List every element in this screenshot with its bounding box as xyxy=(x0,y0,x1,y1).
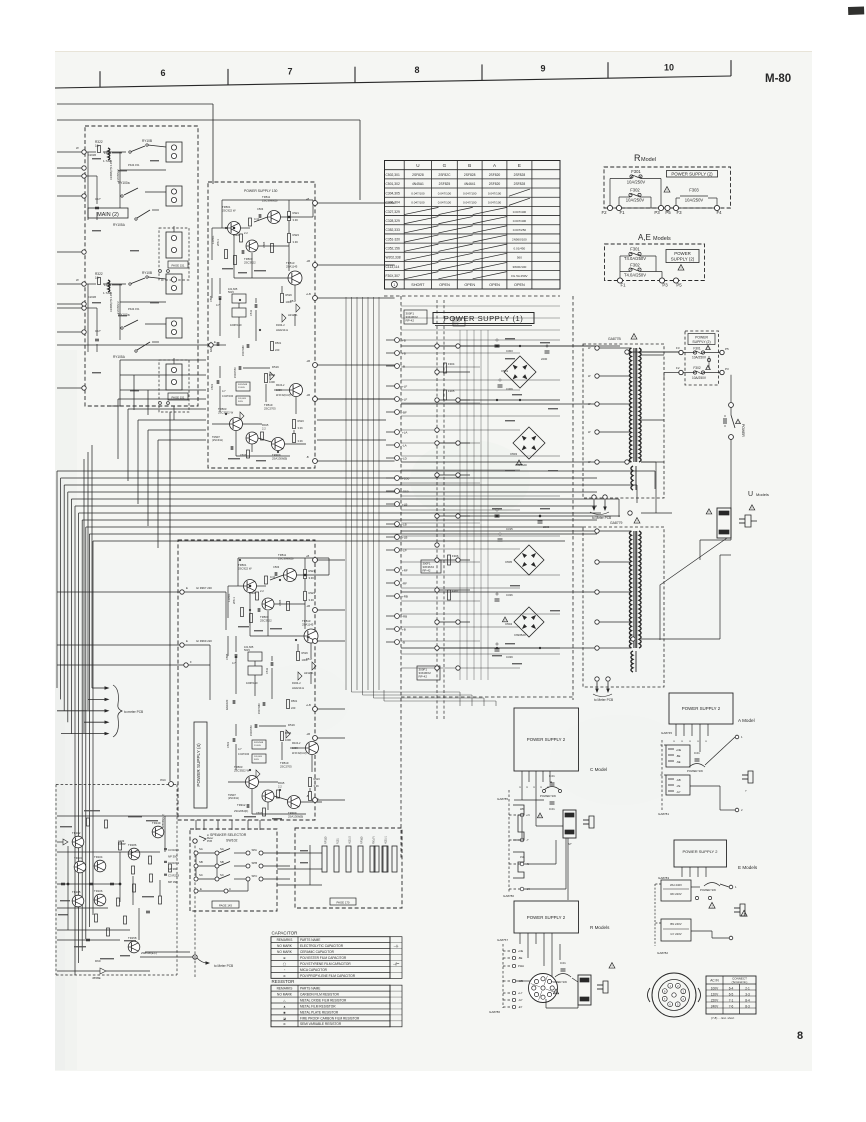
svg-text:W: W xyxy=(76,278,79,282)
svg-text:5015: 5015 xyxy=(254,759,260,761)
svg-text:0.01: 0.01 xyxy=(560,961,566,965)
svg-text:!: ! xyxy=(666,189,667,193)
svg-text:3.3K: 3.3K xyxy=(309,598,315,602)
svg-text:D519: D519 xyxy=(272,365,279,369)
svg-text:0.047/160: 0.047/160 xyxy=(238,753,250,756)
svg-text:C: C xyxy=(518,786,522,788)
svg-text:+LF: +LF xyxy=(402,385,407,389)
svg-text:2SC2064(K): 2SC2064(K) xyxy=(234,809,248,813)
svg-text:Models: Models xyxy=(756,492,769,497)
svg-text:NO MARK: NO MARK xyxy=(277,944,293,948)
svg-text:5015/508: 5015/508 xyxy=(254,742,264,744)
svg-text:SPA: SPA xyxy=(252,848,258,852)
svg-text:RY1(F): RY1(F) xyxy=(373,836,376,844)
svg-text:HZ12B1: HZ12B1 xyxy=(304,671,314,675)
svg-text:0.047/100: 0.047/100 xyxy=(463,191,477,195)
svg-text:SPC: SPC xyxy=(252,874,258,878)
svg-text:GA8781: GA8781 xyxy=(658,812,669,816)
svg-text:SPEAKER SELECTOR: SPEAKER SELECTOR xyxy=(210,833,247,837)
svg-text:C328,329: C328,329 xyxy=(386,219,400,223)
svg-text:C501: C501 xyxy=(226,741,230,748)
svg-text:3.3K: 3.3K xyxy=(298,426,304,430)
svg-text:2.2: 2.2 xyxy=(260,589,264,593)
svg-text:0.047/100: 0.047/100 xyxy=(438,191,452,195)
svg-text:OPEN: OPEN xyxy=(514,283,525,287)
svg-text:PAGE 170: PAGE 170 xyxy=(336,900,349,904)
svg-text:C565: C565 xyxy=(209,295,213,302)
svg-text:F305: F305 xyxy=(448,389,455,393)
svg-text:SUPPLY (2): SUPPLY (2) xyxy=(671,257,695,262)
svg-text:10: 10 xyxy=(95,144,99,148)
svg-text:-D50: -D50 xyxy=(402,490,409,494)
svg-text:6: 6 xyxy=(160,68,165,78)
svg-text:POWER SUPPLY 2: POWER SUPPLY 2 xyxy=(682,706,721,711)
svg-text:F1: F1 xyxy=(619,210,625,215)
svg-text:TR158: TR158 xyxy=(128,936,137,940)
svg-text:OPEN: OPEN xyxy=(439,283,450,287)
svg-text:C503: C503 xyxy=(256,812,263,815)
svg-text:+NE: +NE xyxy=(518,949,523,953)
svg-text:8-4: 8-4 xyxy=(745,998,750,1002)
svg-text:-RB: -RB xyxy=(402,615,407,619)
svg-text:S?: S? xyxy=(568,842,572,846)
svg-text:C: C xyxy=(525,786,529,788)
svg-text:C: C xyxy=(532,786,536,788)
svg-text:+B: +B xyxy=(306,554,310,558)
svg-text:RP-42: RP-42 xyxy=(419,675,428,679)
svg-text:+LB: +LB xyxy=(306,703,311,707)
svg-text:R923: R923 xyxy=(298,419,305,423)
svg-text:◔: ◔ xyxy=(284,968,286,972)
svg-text:1500P/50: 1500P/50 xyxy=(234,367,237,378)
svg-text:C329: C329 xyxy=(506,655,513,659)
svg-text:!: ! xyxy=(752,506,753,510)
svg-text:-NE: -NE xyxy=(676,760,681,764)
svg-text:2SF828: 2SF828 xyxy=(412,173,424,177)
svg-text:W: W xyxy=(76,146,79,150)
svg-text:+N: +N xyxy=(526,813,530,817)
svg-text:C501: C501 xyxy=(210,383,214,390)
svg-text:PAGE 143: PAGE 143 xyxy=(219,903,232,907)
svg-text:RP-42: RP-42 xyxy=(423,568,431,572)
svg-text:2SF820: 2SF820 xyxy=(489,173,501,177)
svg-text:GI R967 230: GI R967 230 xyxy=(196,586,212,590)
svg-text:-GB: -GB xyxy=(676,778,681,782)
svg-text:10: 10 xyxy=(664,63,674,73)
svg-text:to meter PCB: to meter PCB xyxy=(124,710,143,714)
svg-text:SB: SB xyxy=(199,860,203,864)
svg-text:F301: F301 xyxy=(631,169,641,174)
svg-text:-LD: -LD xyxy=(402,457,408,461)
svg-text:2P6.1: 2P6.1 xyxy=(232,597,236,604)
svg-text:◯: ◯ xyxy=(283,962,287,966)
svg-text:E Models: E Models xyxy=(738,865,758,870)
svg-text:RP150: RP150 xyxy=(325,836,328,844)
svg-text:C503: C503 xyxy=(273,565,280,569)
svg-text:2SA1145: 2SA1145 xyxy=(302,622,314,626)
svg-text:◪: ◪ xyxy=(283,1016,286,1020)
svg-text:C: C xyxy=(681,740,684,742)
svg-text:F306: F306 xyxy=(452,554,459,558)
svg-text:POWER SW: POWER SW xyxy=(700,888,716,892)
svg-text:PAGE 151: PAGE 151 xyxy=(171,263,184,267)
svg-text:F4: F4 xyxy=(716,210,722,215)
svg-text:E: E xyxy=(200,887,202,891)
svg-text:FR24-2: FR24-2 xyxy=(292,742,301,745)
svg-text:◉: ◉ xyxy=(283,1010,286,1014)
svg-text:3.3K: 3.3K xyxy=(314,784,320,788)
svg-text:METAL FILM RESISTOR: METAL FILM RESISTOR xyxy=(300,1004,336,1008)
svg-text:100K: 100K xyxy=(269,380,275,384)
svg-text:C1?: C1? xyxy=(95,329,101,333)
svg-text:F303: F303 xyxy=(689,187,699,192)
svg-text:C3 R222: C3 R222 xyxy=(168,848,179,852)
svg-text:HA0213-H: HA0213-H xyxy=(276,328,288,332)
svg-text:⊘: ⊘ xyxy=(283,974,286,978)
svg-text:⊘: ⊘ xyxy=(283,1022,286,1026)
svg-text:F302: F302 xyxy=(630,187,640,192)
svg-text:SEMI VARIABLE RESISTOR: SEMI VARIABLE RESISTOR xyxy=(300,1022,342,1026)
svg-text:1500P/50: 1500P/50 xyxy=(250,725,253,736)
svg-text:F307: F307 xyxy=(452,589,459,593)
svg-text:SPB: SPB xyxy=(252,861,258,865)
svg-text:13.005: 13.005 xyxy=(254,745,261,747)
svg-text:A Model: A Model xyxy=(738,718,755,723)
svg-text:1: 1 xyxy=(393,283,395,287)
svg-text:NP 390: NP 390 xyxy=(168,854,178,858)
svg-text:2SA1306(B): 2SA1306(B) xyxy=(288,814,303,818)
svg-text:CERAMIC CAPACITOR: CERAMIC CAPACITOR xyxy=(300,950,335,954)
svg-text:MAIN (2): MAIN (2) xyxy=(97,212,119,218)
svg-text:TR102: TR102 xyxy=(72,831,81,835)
svg-text:+B: +B xyxy=(402,339,406,343)
svg-text:SC: SC xyxy=(199,873,203,877)
svg-text:4.7: 4.7 xyxy=(232,661,236,665)
svg-text:P5: P5 xyxy=(676,283,682,288)
svg-text:H151-2: H151-2 xyxy=(349,835,352,844)
svg-text:0.047/400: 0.047/400 xyxy=(513,219,527,223)
svg-text:4558E: 4558E xyxy=(92,976,101,980)
svg-text:2SC2705: 2SC2705 xyxy=(280,764,292,768)
svg-text:GA877B: GA877B xyxy=(608,337,622,341)
svg-text:0.01/450: 0.01/450 xyxy=(514,246,526,250)
svg-text:D504: D504 xyxy=(505,622,512,626)
svg-text:F2: F2 xyxy=(601,210,607,215)
svg-text:T4.0A/250V: T4.0A/250V xyxy=(624,272,646,277)
svg-text:2SA1306(B): 2SA1306(B) xyxy=(272,456,287,460)
svg-text:-GY: -GY xyxy=(676,790,681,794)
svg-text:0.047/100: 0.047/100 xyxy=(411,201,425,205)
svg-text:⊣⊦: ⊣⊦ xyxy=(393,944,398,948)
svg-text:F30X,307: F30X,307 xyxy=(386,274,400,278)
svg-text:C352,156: C352,156 xyxy=(386,246,400,250)
svg-text:FR24-2: FR24-2 xyxy=(276,384,285,387)
svg-text:C: C xyxy=(229,887,231,891)
svg-text:POWER SUPPLY (2): POWER SUPPLY (2) xyxy=(671,172,713,177)
svg-text:D503: D503 xyxy=(510,452,517,456)
svg-text:2SC922 W: 2SC922 W xyxy=(238,566,252,570)
svg-text:POWER SUPPLY 2: POWER SUPPLY 2 xyxy=(527,737,566,742)
svg-text:POWER SUPPLY (4): POWER SUPPLY (4) xyxy=(196,743,201,787)
svg-text:R529: R529 xyxy=(302,651,309,655)
svg-text:+RB: +RB xyxy=(402,595,408,599)
svg-text:Model: Model xyxy=(641,157,656,163)
svg-text:100K: 100K xyxy=(276,389,282,392)
svg-text:to Meter PCB: to Meter PCB xyxy=(214,964,233,968)
svg-text:2200: 2200 xyxy=(543,525,550,529)
svg-text:3.3K: 3.3K xyxy=(298,439,304,443)
svg-text:GA8779: GA8779 xyxy=(610,521,623,525)
svg-text:GA8757: GA8757 xyxy=(497,938,508,942)
svg-text:2.2: 2.2 xyxy=(262,426,266,430)
svg-text:2SC3922: 2SC3922 xyxy=(260,618,272,622)
svg-text:C565: C565 xyxy=(225,653,229,660)
svg-text:PARTS NAME: PARTS NAME xyxy=(300,938,320,942)
svg-text:C136/B(P)9 0.058: C136/B(P)9 0.058 xyxy=(110,291,113,312)
svg-text:0.047/100: 0.047/100 xyxy=(463,201,477,205)
svg-text:P5: P5 xyxy=(665,210,671,215)
svg-text:-RF: -RF xyxy=(402,582,407,586)
svg-text:GI R969 220: GI R969 220 xyxy=(196,639,212,643)
svg-text:F304: F304 xyxy=(448,362,455,366)
svg-text:CONNECT: CONNECT xyxy=(732,977,747,981)
svg-text:0.01: 0.01 xyxy=(549,774,555,778)
svg-text:0.047/100: 0.047/100 xyxy=(411,191,425,195)
svg-text:!: ! xyxy=(738,420,739,424)
svg-text:15A: 15A xyxy=(520,856,525,859)
svg-text:T4.0A/250V: T4.0A/250V xyxy=(624,256,646,261)
svg-text:GA8786: GA8786 xyxy=(489,1010,500,1014)
svg-text:(2SC911): (2SC911) xyxy=(228,796,239,800)
svg-text:C503: C503 xyxy=(257,207,264,211)
svg-text:2SC3998(B): 2SC3998(B) xyxy=(262,198,277,202)
svg-text:C352,333: C352,333 xyxy=(386,228,400,232)
svg-text:4N45A1: 4N45A1 xyxy=(412,182,424,186)
svg-text:10A/250V: 10A/250V xyxy=(692,376,707,380)
svg-text:2SB596(E,F): 2SB596(E,F) xyxy=(141,951,157,955)
svg-text:F3: F3 xyxy=(676,210,682,215)
svg-text:C326: C326 xyxy=(506,593,513,597)
svg-text:TR105: TR105 xyxy=(72,890,81,894)
svg-text:-LB: -LB xyxy=(306,393,310,397)
svg-text:TR106: TR106 xyxy=(94,889,103,893)
svg-text:SA: SA xyxy=(220,847,224,851)
svg-text:+B: +B xyxy=(306,197,310,201)
svg-text:P5: P5 xyxy=(725,347,729,351)
svg-text:C: C xyxy=(689,740,692,742)
svg-text:3.3K: 3.3K xyxy=(293,240,299,244)
svg-text:0.047/100: 0.047/100 xyxy=(488,201,502,205)
svg-text:POWER SW: POWER SW xyxy=(540,794,556,798)
svg-text:-B: -B xyxy=(402,365,405,369)
svg-text:FIRE PROOF CARBON FILM RESISTO: FIRE PROOF CARBON FILM RESISTOR xyxy=(300,1016,360,1020)
svg-text:-BE: -BE xyxy=(518,956,523,960)
svg-text:CARBON FILM RESISTOR: CARBON FILM RESISTOR xyxy=(300,992,340,996)
svg-text:POLYSTYRENE FILM CAPACITOR: POLYSTYRENE FILM CAPACITOR xyxy=(300,962,351,966)
svg-text:to Meter PCB: to Meter PCB xyxy=(594,698,613,702)
svg-text:C502,301: C502,301 xyxy=(386,173,400,177)
svg-text:0.047/250: 0.047/250 xyxy=(513,228,527,232)
svg-text:C306,304: C306,304 xyxy=(386,201,400,205)
svg-text:MICA CAPACITOR: MICA CAPACITOR xyxy=(300,968,328,972)
svg-text:240V: 240V xyxy=(711,1004,719,1008)
svg-text:!: ! xyxy=(540,814,541,818)
svg-text:-LB: -LB xyxy=(306,635,310,639)
svg-text:!: ! xyxy=(519,461,520,465)
svg-text:+RF: +RF xyxy=(402,569,408,573)
svg-text:ELECTROLYTIC CAPACITOR: ELECTROLYTIC CAPACITOR xyxy=(300,944,344,948)
svg-text:SW102: SW102 xyxy=(226,839,238,843)
svg-text:B: B xyxy=(468,163,471,168)
svg-text:R923: R923 xyxy=(314,777,321,781)
svg-text:REMARKS: REMARKS xyxy=(277,938,293,942)
svg-text:-BE: -BE xyxy=(676,754,681,758)
svg-text:RY105A: RY105A xyxy=(113,355,126,359)
svg-text:7-1: 7-1 xyxy=(729,998,734,1002)
svg-text:GA8785: GA8785 xyxy=(497,797,508,801)
svg-text:100V: 100V xyxy=(711,986,719,990)
svg-text:FR24-2: FR24-2 xyxy=(276,323,285,327)
svg-text:2-1: 2-1 xyxy=(745,986,750,990)
svg-text:-LB: -LB xyxy=(306,359,310,363)
svg-text:SC: SC xyxy=(220,873,224,877)
svg-text:REMARKS: REMARKS xyxy=(277,987,293,991)
svg-text:101,665: 101,665 xyxy=(238,398,247,400)
svg-text:3-3: 3-3 xyxy=(745,992,750,996)
svg-text:SHORT: SHORT xyxy=(411,283,425,287)
svg-text:220: 220 xyxy=(275,348,280,352)
svg-text:POWER SUPPLY 130: POWER SUPPLY 130 xyxy=(244,189,278,193)
svg-text:+NE: +NE xyxy=(676,748,681,752)
svg-text:C315: C315 xyxy=(506,527,513,531)
svg-text:+LA: +LA xyxy=(402,431,407,435)
svg-text:7-6: 7-6 xyxy=(729,1004,734,1008)
svg-text:C309: C309 xyxy=(506,387,513,391)
svg-text:WR: WR xyxy=(520,808,524,811)
svg-text:!: ! xyxy=(711,904,712,909)
svg-text:2SF828: 2SF828 xyxy=(514,182,526,186)
svg-text:!: ! xyxy=(556,990,557,994)
svg-text:GA8782: GA8782 xyxy=(657,951,668,955)
svg-text:!: ! xyxy=(611,965,612,969)
svg-text:POWER SW: POWER SW xyxy=(687,769,703,773)
svg-text:+LY: +LY xyxy=(518,991,523,995)
svg-text:+LB: +LB xyxy=(306,292,311,296)
svg-text:FR24-2: FR24-2 xyxy=(292,681,301,685)
svg-text:SB: SB xyxy=(220,860,224,864)
svg-text:+LF: +LF xyxy=(402,398,407,402)
svg-text:(7-8) ... Ext. short: (7-8) ... Ext. short xyxy=(711,1016,734,1020)
svg-text:2SC3922 W: 2SC3922 W xyxy=(234,768,249,772)
svg-text:0.047/100: 0.047/100 xyxy=(488,191,502,195)
svg-text:METAL OXIDE FILM RESISTOR: METAL OXIDE FILM RESISTOR xyxy=(300,998,347,1002)
svg-text:C511: C511 xyxy=(265,667,269,674)
svg-text:R501: R501 xyxy=(291,699,298,703)
svg-text:C113,114: C113,114 xyxy=(386,265,400,269)
svg-text:3.3K: 3.3K xyxy=(293,218,299,222)
svg-text:F3: F3 xyxy=(676,346,680,350)
svg-text:GA8780: GA8780 xyxy=(503,894,514,898)
svg-text:F301: F301 xyxy=(630,247,640,252)
svg-text:-LB: -LB xyxy=(306,604,310,608)
svg-text:F302: F302 xyxy=(630,262,640,267)
svg-text:POWER SW: POWER SW xyxy=(551,980,567,984)
svg-text:-?: -? xyxy=(526,838,529,842)
svg-text:R151: R151 xyxy=(337,838,340,844)
svg-text:L-R501: L-R501 xyxy=(211,235,215,244)
svg-text:R923: R923 xyxy=(293,233,300,237)
svg-text:+B: +B xyxy=(402,352,406,356)
svg-text:C327,329: C327,329 xyxy=(386,210,400,214)
svg-text:NO MARK: NO MARK xyxy=(277,992,293,996)
svg-text:-EY: -EY xyxy=(518,1005,523,1009)
svg-text:GA8783: GA8783 xyxy=(658,876,669,880)
svg-text:⊕: ⊕ xyxy=(283,956,286,960)
svg-text:BN 240V: BN 240V xyxy=(670,922,681,926)
svg-text:13.005: 13.005 xyxy=(238,387,245,389)
svg-text:RESISTOR: RESISTOR xyxy=(272,979,296,984)
svg-text:A,E: A,E xyxy=(638,233,651,242)
svg-text:P3: P3 xyxy=(654,210,660,215)
svg-text:-LB: -LB xyxy=(306,259,310,263)
svg-text:C501,302: C501,302 xyxy=(386,182,400,186)
svg-text:to Meter PCB: to Meter PCB xyxy=(592,516,611,520)
svg-text:C1?: C1? xyxy=(95,197,101,201)
svg-text:100K: 100K xyxy=(286,300,292,304)
svg-text:(Terminal No.): (Terminal No.) xyxy=(732,981,748,984)
svg-text:POWER: POWER xyxy=(674,251,691,256)
svg-text:POLYPROPYLENE FILM CAPACITOR: POLYPROPYLENE FILM CAPACITOR xyxy=(300,974,356,978)
svg-text:RY10B: RY10B xyxy=(142,139,152,143)
svg-text:M-80: M-80 xyxy=(765,73,791,85)
svg-text:5015: 5015 xyxy=(228,290,234,294)
svg-text:NO MARK: NO MARK xyxy=(277,950,293,954)
svg-text:b2k1/180: b2k1/180 xyxy=(226,699,229,710)
svg-text:10A/250V: 10A/250V xyxy=(692,356,707,360)
svg-text:3W0F/100: 3W0F/100 xyxy=(512,265,526,269)
svg-text:9: 9 xyxy=(540,64,545,74)
svg-text:D501: D501 xyxy=(501,369,508,373)
svg-text:10A/250V: 10A/250V xyxy=(627,180,646,185)
svg-text:6X2: 6X2 xyxy=(454,322,459,326)
svg-text:220V: 220V xyxy=(711,998,719,1002)
svg-text:C565: C565 xyxy=(278,599,282,606)
svg-text:4.7: 4.7 xyxy=(216,303,220,307)
svg-text:MP 390: MP 390 xyxy=(168,880,178,884)
svg-text:PARTS NAME: PARTS NAME xyxy=(300,987,320,991)
svg-text:2SF825: 2SF825 xyxy=(439,182,451,186)
svg-text:150P/160: 150P/160 xyxy=(258,703,261,714)
svg-text:C201B: C201B xyxy=(88,153,96,157)
svg-text:-B: -B xyxy=(306,794,309,798)
svg-text:SP 390: SP 390 xyxy=(168,867,178,871)
svg-text:6-5: 6-5 xyxy=(729,992,734,996)
svg-text:R Models: R Models xyxy=(590,925,610,930)
svg-text:E: E xyxy=(214,340,216,344)
svg-text:U: U xyxy=(748,491,753,498)
svg-text:0X55P: 0X55P xyxy=(118,842,126,846)
svg-text:2SF820: 2SF820 xyxy=(489,182,501,186)
svg-text:0.047/160: 0.047/160 xyxy=(222,395,234,398)
svg-text:GA8745: GA8745 xyxy=(661,731,672,735)
svg-text:TR186: TR186 xyxy=(128,843,137,847)
svg-text:4.7: 4.7 xyxy=(222,389,226,393)
svg-text:RP-42: RP-42 xyxy=(406,319,415,323)
svg-text:E: E xyxy=(186,586,188,590)
svg-text:7: 7 xyxy=(287,67,292,77)
svg-text:120V: 120V xyxy=(711,992,719,996)
svg-text:C503: C503 xyxy=(240,454,247,457)
